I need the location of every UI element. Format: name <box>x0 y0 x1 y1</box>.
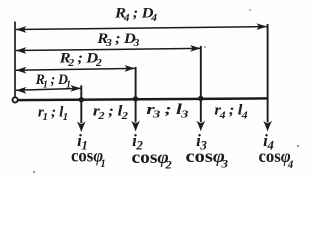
svg-text:R3 ; D3: R3 ; D3 <box>96 30 140 49</box>
svg-text:r1 ; l1: r1 ; l1 <box>38 103 68 122</box>
svg-text:R4 ; D4: R4 ; D4 <box>114 5 158 24</box>
svg-text:r4 ; l4: r4 ; l4 <box>214 102 248 121</box>
svg-text:R2 ; D2: R2 ; D2 <box>59 50 103 69</box>
svg-text:R1 ; D1: R1 ; D1 <box>35 72 71 91</box>
svg-text:cosφ4: cosφ4 <box>259 147 294 171</box>
svg-text:cosφ2: cosφ2 <box>132 147 172 171</box>
svg-text:r2 ; l2: r2 ; l2 <box>93 102 128 122</box>
svg-text:r3 ; l3: r3 ; l3 <box>146 101 189 120</box>
svg-text:cosφ1: cosφ1 <box>71 146 106 170</box>
svg-text:cosφ3: cosφ3 <box>186 147 229 170</box>
